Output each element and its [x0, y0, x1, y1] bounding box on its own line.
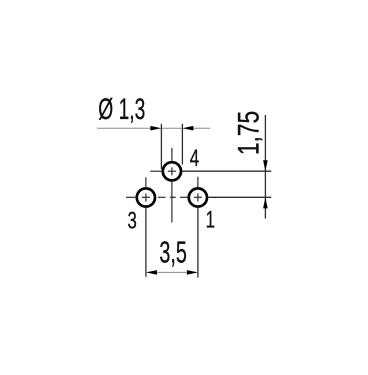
centerline circle 1 vertical above — [197, 177, 199, 188]
center mark circle 1 — [194, 196, 202, 198]
svg-text:Ø 1,3: Ø 1,3 — [98, 93, 145, 126]
pin label 1 — [206, 207, 215, 234]
arrowhead left of Ø1,3 dimension (points right) — [150, 126, 161, 131]
extension line right (circle 4 right tangent) — [181, 124, 183, 165]
centerline circle 4 horizontal right (extends to 1,75 dim) — [182, 170, 271, 172]
arrowhead 3,5 left (points left) — [146, 270, 157, 275]
arrowhead 1,75 upper (points down) — [263, 160, 268, 171]
pad circle 1 — [189, 188, 207, 206]
pad circle 3 — [137, 188, 155, 206]
arrowhead right of Ø1,3 dimension (points left) — [182, 126, 193, 131]
arrowhead 3,5 right (points right) — [187, 270, 198, 275]
svg-text:1,75: 1,75 — [232, 111, 266, 155]
pad circle 4 — [163, 162, 181, 180]
centerline circle 4 vertical above — [171, 148, 173, 162]
centerline circle 3 vertical above — [145, 177, 147, 188]
svg-text:1: 1 — [206, 207, 215, 234]
svg-text:3,5: 3,5 — [159, 237, 186, 270]
pin label 4 — [190, 145, 199, 172]
dimension line 3,5 (horizontal) — [157, 271, 187, 273]
dimension label 3,5 — [159, 237, 186, 270]
centerline circle 4 vertical below — [171, 181, 173, 223]
center mark circle 4 — [168, 170, 176, 172]
pin label 3 — [128, 208, 137, 235]
dimension label Ø 1,3 — [98, 93, 145, 126]
extension line left (circle 4 left tangent) — [160, 124, 162, 169]
centerline circle 4 horizontal left dash — [150, 170, 162, 172]
row centerline (through circles 3 and 1, dash-dot, extends to 1,75 dim) — [126, 196, 137, 198]
dimension label 1,75 (rotated) — [232, 111, 266, 155]
extension line circle 3 vertical below (to 3,5 dim) — [145, 207, 147, 277]
svg-text:3: 3 — [128, 208, 137, 235]
dimension line Ø1,3 (horizontal leader) — [97, 127, 151, 129]
extension line circle 1 vertical below (to 3,5 dim) — [197, 207, 199, 277]
svg-text:4: 4 — [190, 145, 199, 172]
dimension line 1,75 (vertical) — [264, 115, 266, 219]
arrowhead 1,75 lower (points up) — [263, 197, 268, 208]
center mark circle 3 — [142, 196, 150, 198]
